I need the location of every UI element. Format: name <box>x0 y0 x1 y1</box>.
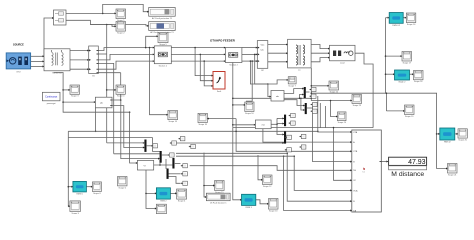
svg-text:Scope 19: Scope 19 <box>405 116 414 118</box>
svg-text:Scope 14: Scope 14 <box>168 121 177 123</box>
junction <box>200 54 202 56</box>
scope Scope8 <box>92 182 101 195</box>
junction <box>62 101 64 103</box>
wire <box>386 73 395 75</box>
wire <box>54 73 130 113</box>
wire <box>130 112 138 163</box>
svg-text:Scope 16: Scope 16 <box>407 24 416 26</box>
scope ScopeB <box>156 204 166 217</box>
svg-text:T2: T2 <box>298 70 300 72</box>
svg-text:RMS I2: RMS I2 <box>444 142 452 144</box>
scope Scope13 <box>269 199 279 213</box>
block RMS3a <box>242 194 256 209</box>
wire <box>176 152 287 154</box>
goto tag <box>309 87 316 91</box>
wire <box>175 163 181 165</box>
scope Scope21 <box>448 164 458 177</box>
display Fault location 1 <box>206 193 230 204</box>
svg-text:Scope 4: Scope 4 <box>117 96 125 98</box>
svg-text:abc: abc <box>276 96 279 98</box>
wire <box>301 98 305 110</box>
scope Scope20 <box>458 129 468 142</box>
goto tag <box>285 135 292 139</box>
svg-text:M distance: M distance <box>391 171 424 178</box>
wire <box>319 103 321 128</box>
goto tag <box>181 181 188 185</box>
mux M1 <box>304 87 306 98</box>
wire <box>437 134 448 169</box>
svg-text:Section 2: Section 2 <box>229 63 238 66</box>
wire <box>256 200 269 204</box>
wire <box>284 156 352 210</box>
wire <box>263 128 352 143</box>
junction <box>299 98 301 100</box>
scope Scope17 <box>402 52 412 65</box>
wire <box>284 89 304 94</box>
junction <box>262 127 264 129</box>
display AC Fault protection 21 <box>149 8 176 20</box>
goto tag <box>181 172 188 176</box>
junction <box>232 98 234 100</box>
wire <box>386 93 440 134</box>
svg-text:Scope 12: Scope 12 <box>263 186 272 188</box>
scope Scope23 <box>352 95 362 107</box>
wire <box>242 47 257 49</box>
wire <box>410 73 414 75</box>
svg-text:RMS U2: RMS U2 <box>392 25 400 27</box>
wire <box>168 177 181 184</box>
wire <box>146 36 158 47</box>
wire <box>106 25 108 143</box>
block RMS_U2 <box>389 13 403 27</box>
svg-text:fcn: fcn <box>363 172 365 174</box>
junction <box>254 54 256 56</box>
wire <box>311 85 329 87</box>
wire <box>171 53 225 55</box>
bus measurement B1 <box>89 46 99 77</box>
wire <box>236 119 352 152</box>
wire <box>31 65 44 67</box>
junction <box>68 186 70 188</box>
svg-text:VTB: VTB <box>353 151 358 153</box>
junction <box>159 164 161 166</box>
wire <box>31 60 44 62</box>
wire <box>171 47 225 49</box>
wire <box>86 186 92 188</box>
bus measurement B2 <box>257 41 268 73</box>
svg-text:Continuous: Continuous <box>45 96 58 99</box>
junction <box>385 73 387 75</box>
svg-text:Scope 23: Scope 23 <box>353 105 362 107</box>
wire <box>162 154 168 156</box>
scope Scope2 <box>116 22 126 35</box>
junction <box>300 98 302 100</box>
goto tag <box>151 144 158 148</box>
wire <box>311 68 352 101</box>
junction <box>276 124 278 126</box>
svg-text:Scope 7: Scope 7 <box>288 85 296 87</box>
wire <box>154 164 173 166</box>
svg-text:Iabc: Iabc <box>261 49 264 51</box>
wire <box>277 117 284 119</box>
svg-text:Scope 10: Scope 10 <box>245 113 254 115</box>
wire <box>98 54 154 60</box>
svg-text:Mode 2: Mode 2 <box>399 82 407 84</box>
svg-text:Scope 16: Scope 16 <box>198 124 207 126</box>
wire <box>204 153 206 197</box>
wire <box>242 60 257 62</box>
goto tag <box>311 109 318 113</box>
svg-text:VTA: VTA <box>353 131 357 134</box>
goto tag <box>189 144 196 148</box>
block RMS2a <box>156 188 170 203</box>
transformer T2 <box>288 39 312 72</box>
wire <box>233 124 256 126</box>
wire <box>112 106 144 148</box>
wire <box>120 73 122 100</box>
wire <box>311 52 329 54</box>
svg-text:RMS U: RMS U <box>76 194 83 196</box>
svg-text:Scope 22: Scope 22 <box>330 91 339 93</box>
junction <box>106 24 108 26</box>
svg-text:B1: B1 <box>92 75 94 77</box>
block Load <box>330 45 356 64</box>
mux M5 <box>144 140 146 152</box>
junction <box>385 55 387 57</box>
goto tag <box>168 153 175 157</box>
subsystem F <box>255 120 271 129</box>
scope Scope3 <box>70 85 80 98</box>
wire <box>114 153 160 155</box>
wire <box>103 4 149 13</box>
scope Scope6 <box>118 177 128 190</box>
wire <box>63 89 70 91</box>
junction <box>203 185 205 187</box>
wire <box>98 72 120 74</box>
junction <box>203 60 205 62</box>
subsystem D <box>271 91 284 102</box>
wire <box>165 159 168 169</box>
goto tag <box>285 148 292 152</box>
wire <box>68 130 317 132</box>
wire <box>246 61 252 101</box>
svg-text:min: min <box>262 125 265 127</box>
svg-text:Scope 24: Scope 24 <box>338 122 347 124</box>
wire <box>168 173 181 175</box>
wire <box>287 153 352 201</box>
subsystem M <box>137 160 153 170</box>
scope Scope14 <box>168 111 178 124</box>
wire <box>70 59 89 61</box>
wire <box>318 96 352 132</box>
source block SOURCE <box>6 43 30 73</box>
fault block (red) <box>213 72 225 94</box>
svg-text:RMS 2: RMS 2 <box>160 201 167 203</box>
goto tag <box>309 94 316 98</box>
junction <box>145 47 147 49</box>
svg-text:abc: abc <box>100 103 103 105</box>
wire <box>311 92 385 94</box>
scope Scope7 <box>288 77 296 88</box>
wire <box>204 61 213 86</box>
block RMS_I2 <box>440 128 455 144</box>
wire <box>95 108 97 132</box>
junction <box>317 131 319 133</box>
wire <box>325 106 327 128</box>
junction <box>311 92 313 94</box>
wire <box>306 91 310 93</box>
junction <box>102 13 104 15</box>
svg-text:powergui: powergui <box>47 102 56 105</box>
wire <box>385 93 387 111</box>
svg-text:B2: B2 <box>261 70 263 72</box>
wire <box>107 142 145 144</box>
wire <box>68 138 70 207</box>
wire <box>271 123 277 125</box>
wire <box>66 12 116 14</box>
svg-text:Scope 8: Scope 8 <box>93 193 101 195</box>
scope Scope16 <box>406 13 416 26</box>
svg-text:Scope 2: Scope 2 <box>117 33 125 35</box>
wire <box>334 128 352 181</box>
display AC Recloser protection 21 <box>149 22 176 34</box>
block RMS_U <box>73 181 87 195</box>
wire <box>355 53 373 127</box>
wire <box>68 137 152 139</box>
wire <box>200 54 213 80</box>
wire <box>98 53 106 55</box>
junction <box>330 100 332 102</box>
wire <box>98 48 154 51</box>
svg-text:RMS 3: RMS 3 <box>246 207 253 209</box>
svg-text:Scope 20: Scope 20 <box>458 140 467 142</box>
svg-text:Fault: Fault <box>217 90 222 93</box>
svg-text:Transformer: Transformer <box>52 72 63 75</box>
wire <box>190 166 352 171</box>
wire <box>268 61 288 63</box>
wire <box>455 133 458 135</box>
goto tag <box>170 141 177 145</box>
mux M2 <box>305 103 307 114</box>
wire <box>403 17 406 19</box>
junction <box>311 85 313 87</box>
goto tag <box>299 145 306 149</box>
scope Scope16b <box>198 113 208 126</box>
svg-text:Section 1: Section 1 <box>159 65 168 68</box>
wire <box>268 52 288 54</box>
wire <box>255 54 268 84</box>
svg-text:VCA: VCA <box>353 189 358 192</box>
wire <box>176 155 294 157</box>
junction <box>436 133 438 135</box>
wire <box>195 48 213 76</box>
svg-text:GTU: GTU <box>16 72 21 74</box>
wire <box>300 95 304 99</box>
goto tag <box>289 121 296 125</box>
svg-text:GTUHPO FEEDER: GTUHPO FEEDER <box>210 39 236 43</box>
mux M6 <box>160 151 162 163</box>
transformer T1 (three-phase) <box>44 49 70 75</box>
subsystem abc (left) <box>95 97 112 108</box>
junction <box>333 127 335 129</box>
wire <box>107 25 149 26</box>
wire <box>66 20 116 26</box>
junction <box>250 60 252 62</box>
scope Scope9 <box>70 201 81 215</box>
wire <box>294 156 352 190</box>
wire <box>44 18 54 56</box>
svg-text:Vabc: Vabc <box>261 44 265 46</box>
svg-text:Scope 18: Scope 18 <box>414 81 423 83</box>
junction <box>283 155 285 157</box>
wire <box>268 44 288 46</box>
wire <box>268 80 288 84</box>
scope Scope4 <box>116 85 125 98</box>
wire <box>146 170 156 193</box>
junction <box>232 104 234 106</box>
wire <box>331 101 338 117</box>
wire <box>67 131 69 137</box>
junction <box>106 89 108 91</box>
block Section 1 <box>154 46 171 68</box>
wire <box>386 17 389 19</box>
svg-text:Scope 15: Scope 15 <box>215 192 224 194</box>
junction <box>386 92 388 94</box>
junction <box>62 89 64 91</box>
junction <box>286 153 288 155</box>
scope Scope5 <box>158 32 168 46</box>
junction <box>267 83 269 85</box>
block powergui <box>42 92 60 105</box>
mux M8 <box>167 169 169 179</box>
subsystem C1 <box>52 10 66 25</box>
scope ScopeA <box>177 189 187 203</box>
junction <box>145 193 147 195</box>
wire <box>70 50 89 52</box>
wire <box>311 58 329 62</box>
wire <box>204 185 215 187</box>
mux M4 <box>284 131 286 143</box>
goto tag <box>289 113 296 117</box>
wire <box>170 192 176 194</box>
wire <box>250 61 268 84</box>
junction <box>120 99 122 101</box>
svg-text:Scope 4: Scope 4 <box>178 201 186 203</box>
junction <box>43 56 45 58</box>
wire <box>98 63 113 153</box>
wire <box>63 101 95 103</box>
scope Scope10 <box>245 102 255 115</box>
wire <box>233 127 373 129</box>
junction <box>311 98 313 100</box>
wire <box>31 55 44 57</box>
wire <box>153 138 160 152</box>
wire <box>107 89 116 91</box>
junction <box>95 131 97 133</box>
svg-text:SOURCE: SOURCE <box>13 43 24 46</box>
wire <box>233 128 242 200</box>
svg-text:Scope 3: Scope 3 <box>71 96 79 98</box>
wire <box>233 97 311 99</box>
svg-text:Load: Load <box>340 63 344 65</box>
goto tag <box>299 134 306 138</box>
svg-text:Scope 6: Scope 6 <box>119 187 127 189</box>
mux M7 <box>172 158 174 169</box>
junction <box>251 60 253 62</box>
scope Scope1 <box>116 9 126 22</box>
wire <box>176 142 284 144</box>
wire <box>207 118 236 120</box>
wire <box>242 53 257 55</box>
wire <box>150 48 168 115</box>
wire <box>258 155 263 180</box>
scope Scope24 <box>338 112 347 124</box>
wire <box>307 107 313 109</box>
scope Scope18 <box>414 71 424 84</box>
wire <box>90 24 106 26</box>
goto tag <box>178 137 185 141</box>
svg-text:47.93: 47.93 <box>408 159 426 166</box>
wire <box>386 55 403 57</box>
junction <box>149 47 151 49</box>
wire <box>385 18 387 94</box>
svg-text:Scope 13: Scope 13 <box>269 211 278 213</box>
goto tag <box>311 102 318 106</box>
block Section 2 <box>225 48 242 67</box>
svg-text:(?) Fault location 1: (?) Fault location 1 <box>210 201 227 204</box>
block Mode2 <box>395 70 410 84</box>
junction <box>293 155 295 157</box>
wire <box>386 110 404 112</box>
wire <box>112 100 160 159</box>
wire <box>268 84 271 97</box>
svg-text:Scope 17: Scope 17 <box>403 62 412 64</box>
wire <box>68 186 73 188</box>
wire <box>311 45 329 49</box>
wire <box>232 63 234 128</box>
subsystem distance relay <box>352 130 382 212</box>
mux M3 <box>284 115 286 127</box>
svg-text:Scope 21: Scope 21 <box>448 174 457 176</box>
wire <box>70 68 89 70</box>
wire <box>276 118 278 124</box>
wire <box>277 124 284 134</box>
wire <box>277 123 284 125</box>
wire <box>381 161 388 163</box>
scope Scope12 <box>263 175 273 188</box>
display M distance = 47.93 <box>389 157 427 178</box>
goto tag <box>181 164 188 168</box>
wire <box>313 103 352 162</box>
junction <box>129 111 131 113</box>
junction <box>232 124 234 126</box>
wire <box>98 61 154 69</box>
wire <box>233 104 246 106</box>
scope Scope15 <box>215 181 225 194</box>
scope Scope22 <box>329 81 339 93</box>
wire <box>171 60 225 62</box>
wire <box>146 193 156 208</box>
wire <box>284 100 305 106</box>
junction <box>194 47 196 49</box>
junction <box>235 131 237 133</box>
svg-text:AC Fault protection 21: AC Fault protection 21 <box>152 17 173 20</box>
svg-text:Scope 9: Scope 9 <box>72 213 80 214</box>
scope Scope19 <box>405 105 415 118</box>
wire <box>147 145 152 147</box>
wire <box>159 160 161 165</box>
